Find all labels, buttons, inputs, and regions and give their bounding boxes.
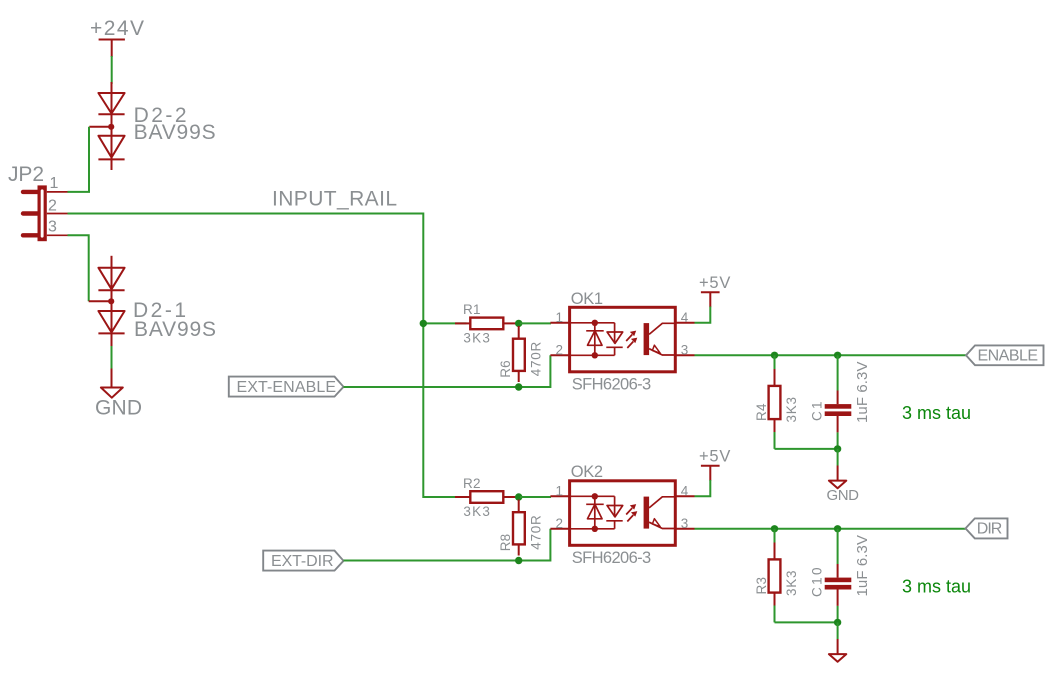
svg-text:1uF 6.3V: 1uF 6.3V — [854, 535, 871, 597]
svg-text:JP2: JP2 — [8, 163, 45, 186]
wire OK1 pin4 to +5V — [695, 307, 711, 323]
svg-text:2: 2 — [555, 342, 563, 357]
OK1 emission arrows — [626, 331, 637, 348]
svg-text:SFH6206-3: SFH6206-3 — [572, 549, 652, 567]
wire D2-1 to GND — [111, 346, 113, 369]
ground GND (ENABLE filter) — [827, 449, 860, 504]
svg-text:R2: R2 — [463, 476, 481, 491]
OK1 pin 1 — [550, 322, 569, 324]
svg-text:R3: R3 — [754, 577, 769, 595]
annotation 3 ms tau (DIR) — [902, 576, 971, 596]
svg-text:R8: R8 — [498, 533, 513, 551]
wire R2 to OK2 pin1 — [520, 496, 551, 498]
svg-text:+24V: +24V — [90, 17, 145, 40]
wire EXT-DIR to OK2 pin2 — [344, 529, 551, 561]
svg-text:INPUT_RAIL: INPUT_RAIL — [272, 188, 398, 211]
svg-text:+5V: +5V — [699, 274, 731, 292]
svg-text:470R: 470R — [529, 341, 544, 376]
ground (DIR filter) — [829, 622, 846, 661]
svg-text:EXT-ENABLE: EXT-ENABLE — [237, 379, 337, 396]
junction ENABLE / C1 node — [834, 352, 841, 359]
tag EXT-DIR — [263, 551, 343, 571]
svg-text:GND: GND — [827, 487, 860, 504]
OK2 phototransistor — [644, 497, 676, 529]
supply +24V — [90, 17, 145, 57]
tag EXT-ENABLE — [229, 377, 344, 397]
OK2 pin 1 — [550, 495, 569, 497]
resistor R6 470R — [498, 326, 544, 382]
label D2-2 BAV99S — [134, 104, 217, 144]
svg-text:C10: C10 — [810, 567, 825, 597]
svg-text:3 ms tau: 3 ms tau — [902, 576, 971, 596]
junction R1 / R6 / OK1 pin1 node — [515, 320, 522, 327]
optocoupler OK2 SFH6206-3 — [550, 463, 694, 567]
svg-text:3K3: 3K3 — [463, 504, 490, 519]
svg-text:2: 2 — [48, 198, 57, 215]
OK1 pin 2 — [550, 354, 569, 356]
svg-text:GND: GND — [95, 397, 143, 420]
resistor R3 3K3 — [754, 529, 799, 623]
wire +24V to D2-2 — [111, 56, 113, 84]
svg-text:R6: R6 — [498, 360, 513, 378]
wire JP2 pin3 down to D2-1 tap — [68, 235, 89, 301]
optocoupler OK1 SFH6206-3 — [550, 290, 694, 393]
resistor R8 470R — [498, 500, 544, 556]
ground GND (left) — [95, 369, 143, 420]
svg-text:1: 1 — [555, 484, 563, 499]
tag ENABLE — [966, 345, 1044, 365]
annotation 3 ms tau (ENABLE) — [902, 403, 971, 423]
svg-text:3: 3 — [48, 219, 57, 236]
svg-text:3 ms tau: 3 ms tau — [902, 403, 971, 423]
svg-text:2: 2 — [555, 516, 563, 531]
junction DIR / C10 node — [834, 525, 841, 532]
svg-text:ENABLE: ENABLE — [978, 347, 1039, 364]
wire INPUT_RAIL from JP2 pin2 — [68, 214, 467, 498]
svg-text:C1: C1 — [810, 401, 825, 421]
OK1 LED pair — [570, 320, 623, 359]
svg-text:4: 4 — [681, 484, 689, 499]
svg-text:+5V: +5V — [699, 448, 731, 466]
svg-text:BAV99S: BAV99S — [134, 318, 217, 341]
tag DIR — [966, 518, 1008, 538]
svg-text:3: 3 — [681, 516, 689, 531]
OK2 pin 4 — [675, 495, 694, 497]
svg-text:R1: R1 — [463, 302, 481, 317]
junction ENABLE / R4 node — [771, 352, 778, 359]
OK2 pin 2 — [550, 528, 569, 530]
wire OK1 pin3 to ENABLE — [695, 354, 967, 356]
OK2 pin 3 — [675, 528, 694, 530]
svg-text:R4: R4 — [754, 403, 769, 421]
resistor R1 3K3 — [455, 302, 516, 345]
wire D2-1 common tap — [89, 300, 112, 302]
wire R4/C1 bottom row — [775, 448, 838, 450]
label D2-1 BAV99S — [133, 299, 217, 341]
diode D2-2 (dual, BAV99S) — [89, 82, 124, 170]
svg-text:1: 1 — [50, 175, 59, 192]
wire D2-2 common tap — [89, 126, 111, 128]
resistor R4 3K3 — [754, 355, 799, 449]
svg-text:3K3: 3K3 — [784, 397, 799, 423]
OK2 LED pair — [570, 493, 623, 532]
svg-text:1: 1 — [555, 310, 563, 325]
wire R1 to OK1 pin1 — [520, 322, 551, 324]
wire JP2 pin1 up to D2-2 tap — [68, 127, 90, 192]
svg-text:SFH6206-3: SFH6206-3 — [572, 375, 652, 393]
junction R3 / C10 / ground node — [834, 619, 841, 626]
wire R3/C10 bottom row — [775, 621, 838, 623]
svg-text:3K3: 3K3 — [784, 570, 799, 596]
junction EXT-DIR / R8 bottom node — [515, 557, 522, 564]
OK1 pin 4 — [675, 322, 694, 324]
resistor R2 3K3 — [455, 476, 516, 519]
svg-text:1uF 6.3V: 1uF 6.3V — [854, 361, 871, 423]
wire EXT-ENABLE to OK1 pin2 — [344, 355, 551, 387]
diode D2-2 lower half — [98, 136, 124, 158]
diode D2-1 lower half — [98, 311, 124, 332]
diode D2-1 (dual, BAV99S) — [89, 256, 125, 346]
svg-text:OK2: OK2 — [571, 463, 604, 481]
junction R4 / C1 / GND node — [834, 445, 841, 452]
capacitor C10 1uF 6.3V — [810, 529, 871, 623]
junction EXT-ENABLE / R6 bottom node — [515, 383, 522, 390]
OK1 phototransistor — [644, 323, 676, 355]
junction D2-2 common pin — [108, 124, 114, 130]
wire OK2 pin4 to +5V — [695, 480, 711, 496]
capacitor C1 1uF 6.3V — [810, 355, 871, 449]
junction R2 / R8 / OK2 pin1 node — [515, 493, 522, 500]
svg-text:470R: 470R — [529, 515, 544, 550]
svg-text:DIR: DIR — [977, 521, 1003, 538]
svg-text:OK1: OK1 — [571, 290, 604, 308]
supply +5V (OK2) — [699, 448, 731, 481]
wire OK2 pin3 to DIR — [695, 528, 966, 530]
junction D2-1 common pin — [108, 298, 114, 304]
svg-text:3K3: 3K3 — [463, 330, 490, 345]
junction INPUT_RAIL / R1 tap — [420, 320, 427, 327]
svg-text:3: 3 — [681, 342, 689, 357]
svg-text:4: 4 — [681, 310, 689, 325]
connector JP2 — [8, 163, 68, 241]
OK2 emission arrows — [626, 504, 637, 521]
svg-text:BAV99S: BAV99S — [134, 121, 217, 144]
OK1 pin 3 — [675, 354, 694, 356]
svg-text:EXT-DIR: EXT-DIR — [271, 553, 334, 570]
net label INPUT_RAIL — [272, 188, 398, 211]
supply +5V (OK1) — [699, 274, 731, 307]
junction DIR / R3 node — [771, 525, 778, 532]
